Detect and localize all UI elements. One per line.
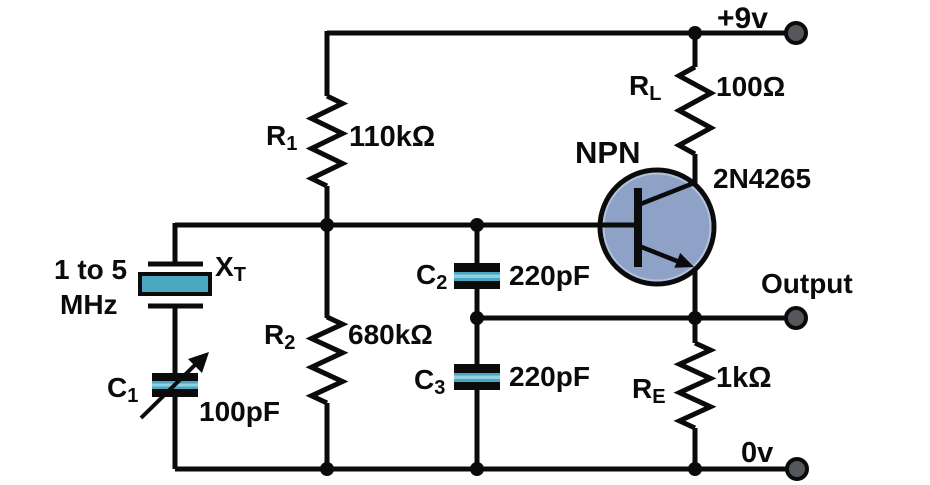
svg-text:0v: 0v	[741, 437, 773, 469]
transistor base bar	[634, 188, 642, 267]
resistor R1	[312, 96, 343, 186]
node junction base rail / R1	[320, 218, 334, 232]
node junction ground rail / R2	[320, 462, 334, 476]
wire R1 bottom lead to base rail	[325, 186, 330, 225]
wire base rail from crystal branch to transistor base	[175, 223, 602, 228]
resistor RL	[679, 67, 711, 154]
wire between crystal and C1	[173, 308, 178, 374]
terminal Output	[786, 308, 806, 328]
wire output rail	[477, 316, 796, 321]
node junction top rail / RL	[688, 26, 702, 40]
crystal XT body	[140, 274, 210, 294]
node junction ground rail / C3	[470, 462, 484, 476]
wire RL top lead from top rail	[693, 33, 698, 67]
svg-text:220pF: 220pF	[509, 260, 590, 291]
wire RE top lead	[693, 318, 698, 343]
node junction output rail / C2-C3	[470, 311, 484, 325]
capacitor C1 top plate	[152, 373, 198, 381]
wire top rail from R1 top corner to +9v terminal	[327, 31, 796, 36]
capacitor C3 bottom plate	[454, 382, 500, 390]
capacitor C2 bottom plate	[454, 281, 500, 289]
svg-text:100pF: 100pF	[199, 396, 280, 427]
node junction output rail / emitter	[688, 311, 702, 325]
capacitor C3 top plate	[454, 364, 500, 373]
capacitor C1 variable arrow	[141, 362, 198, 418]
capacitor C1 dielectric stripe	[152, 381, 198, 389]
wire C1 bottom lead to ground rail	[173, 397, 178, 469]
terminal 0v	[787, 459, 807, 479]
resistor RE	[680, 343, 711, 428]
resistor R2	[312, 317, 343, 403]
capacitor C1 bottom plate	[152, 389, 198, 397]
svg-text:220pF: 220pF	[509, 361, 590, 392]
crystal XT bottom plate	[148, 304, 203, 309]
svg-text:680kΩ: 680kΩ	[348, 319, 433, 350]
transistor Q1 body	[600, 170, 714, 284]
svg-text:110kΩ: 110kΩ	[349, 121, 435, 153]
wire R2 bottom lead to ground rail	[325, 403, 330, 469]
wire ground rail 0v	[175, 467, 797, 472]
svg-text:Output: Output	[761, 268, 853, 299]
wire emitter lead down to output rail	[693, 268, 698, 318]
wire RE bottom lead to ground rail	[693, 428, 698, 469]
node junction base rail / C2	[470, 218, 484, 232]
node junction ground rail / RE	[688, 462, 702, 476]
svg-text:MHz: MHz	[60, 289, 118, 320]
wire R2 top lead	[325, 225, 330, 318]
terminal +9v	[786, 23, 806, 43]
wire crystal branch upper lead	[173, 223, 178, 262]
transistor emitter line with arrow	[639, 246, 682, 263]
wire base lead inside transistor	[598, 223, 638, 228]
capacitor C3 dielectric stripe	[454, 373, 500, 382]
capacitor C2 dielectric stripe	[454, 272, 500, 281]
transistor collector line	[638, 183, 694, 205]
svg-text:1kΩ: 1kΩ	[716, 362, 772, 394]
wire C3 top lead	[475, 318, 480, 365]
svg-text:100Ω: 100Ω	[716, 71, 785, 102]
crystal XT top plate	[148, 262, 203, 267]
wire RL bottom lead to collector	[693, 154, 698, 186]
svg-text:NPN: NPN	[575, 135, 640, 170]
wire C3 bottom lead to ground rail	[475, 390, 480, 469]
svg-text:1 to 5: 1 to 5	[54, 254, 127, 285]
svg-text:+9v: +9v	[717, 2, 768, 35]
wire R1 top lead (vertical from top rail)	[325, 31, 330, 96]
svg-text:2N4265: 2N4265	[713, 163, 811, 194]
capacitor C2 top plate	[454, 263, 500, 272]
wire C2 top lead from base rail	[475, 225, 480, 264]
wire C2 bottom lead to output rail	[475, 289, 480, 318]
